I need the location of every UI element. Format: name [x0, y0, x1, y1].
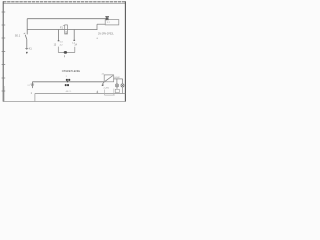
svg-text:OSWIETLENIE: OSWIETLENIE — [62, 69, 81, 73]
svg-text:2N-2PN-2PE2L: 2N-2PN-2PE2L — [98, 34, 115, 36]
svg-text:2-28n: 2-28n — [104, 87, 110, 89]
svg-text:S0.1: S0.1 — [15, 34, 21, 38]
svg-text:ABCD: ABCD — [66, 90, 72, 93]
svg-text:H1H2: H1H2 — [114, 77, 120, 79]
